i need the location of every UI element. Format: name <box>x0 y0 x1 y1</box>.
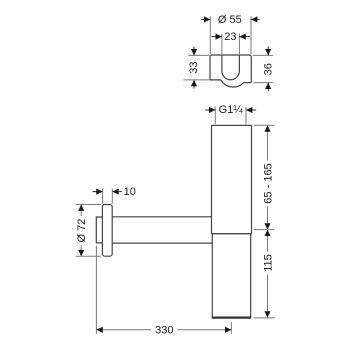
wall flange <box>102 205 112 257</box>
horizontal pipe top <box>112 216 211 218</box>
dimension 115 line <box>267 230 269 252</box>
dimension 330 extension lines <box>95 246 97 334</box>
svg-text:23: 23 <box>224 31 236 43</box>
svg-text:G1¼: G1¼ <box>219 104 244 116</box>
dimension O55 arrows <box>201 18 210 20</box>
siphon tube lower body <box>212 234 250 318</box>
dimension 33 extension lines <box>189 54 210 56</box>
dimension G1-1/4 arrows <box>205 109 215 111</box>
dimension 330 arrows <box>96 327 102 333</box>
dimension O72 arrows <box>78 205 84 211</box>
bracket outline (front view) <box>210 55 251 83</box>
dimension O55 extension lines <box>209 16 211 54</box>
dimension 33 arrows <box>193 47 195 56</box>
dimension 36 extension lines <box>253 54 273 56</box>
siphon tube upper body <box>212 125 252 233</box>
svg-text:36: 36 <box>262 63 274 75</box>
dimension O72 extension lines <box>76 204 101 206</box>
svg-text:10: 10 <box>124 186 136 198</box>
dimension 23 arrows <box>212 36 222 38</box>
svg-text:Ø 55: Ø 55 <box>218 14 242 26</box>
dimension 65-165 arrows <box>264 125 270 131</box>
svg-text:330: 330 <box>155 324 173 336</box>
svg-text:115: 115 <box>262 254 274 272</box>
dimension 115 bottom extension line <box>254 317 276 319</box>
dimension O72 line <box>80 205 82 217</box>
horizontal pipe bottom <box>112 242 212 244</box>
svg-text:65 - 165: 65 - 165 <box>262 163 274 203</box>
dimension 65-165 extension lines <box>254 124 275 126</box>
dimension 10 extension lines <box>102 188 104 204</box>
dimension G1-1/4 extension lines <box>214 107 216 124</box>
dimension 36 arrows <box>267 47 269 56</box>
bracket bottom edge with pipe bulge <box>210 80 251 87</box>
svg-text:Ø 72: Ø 72 <box>76 219 88 243</box>
bracket U slot <box>222 55 240 80</box>
dimension 115 arrows <box>264 230 270 236</box>
dimension 65-165 line <box>267 125 269 160</box>
dimension 23 extension lines <box>221 34 223 54</box>
siphon tube bottom edge <box>212 317 251 319</box>
dimension 10 arrows <box>93 191 103 193</box>
dimension 330 line <box>96 329 151 331</box>
svg-text:33: 33 <box>188 61 200 73</box>
pipe stub behind flange <box>96 217 102 243</box>
